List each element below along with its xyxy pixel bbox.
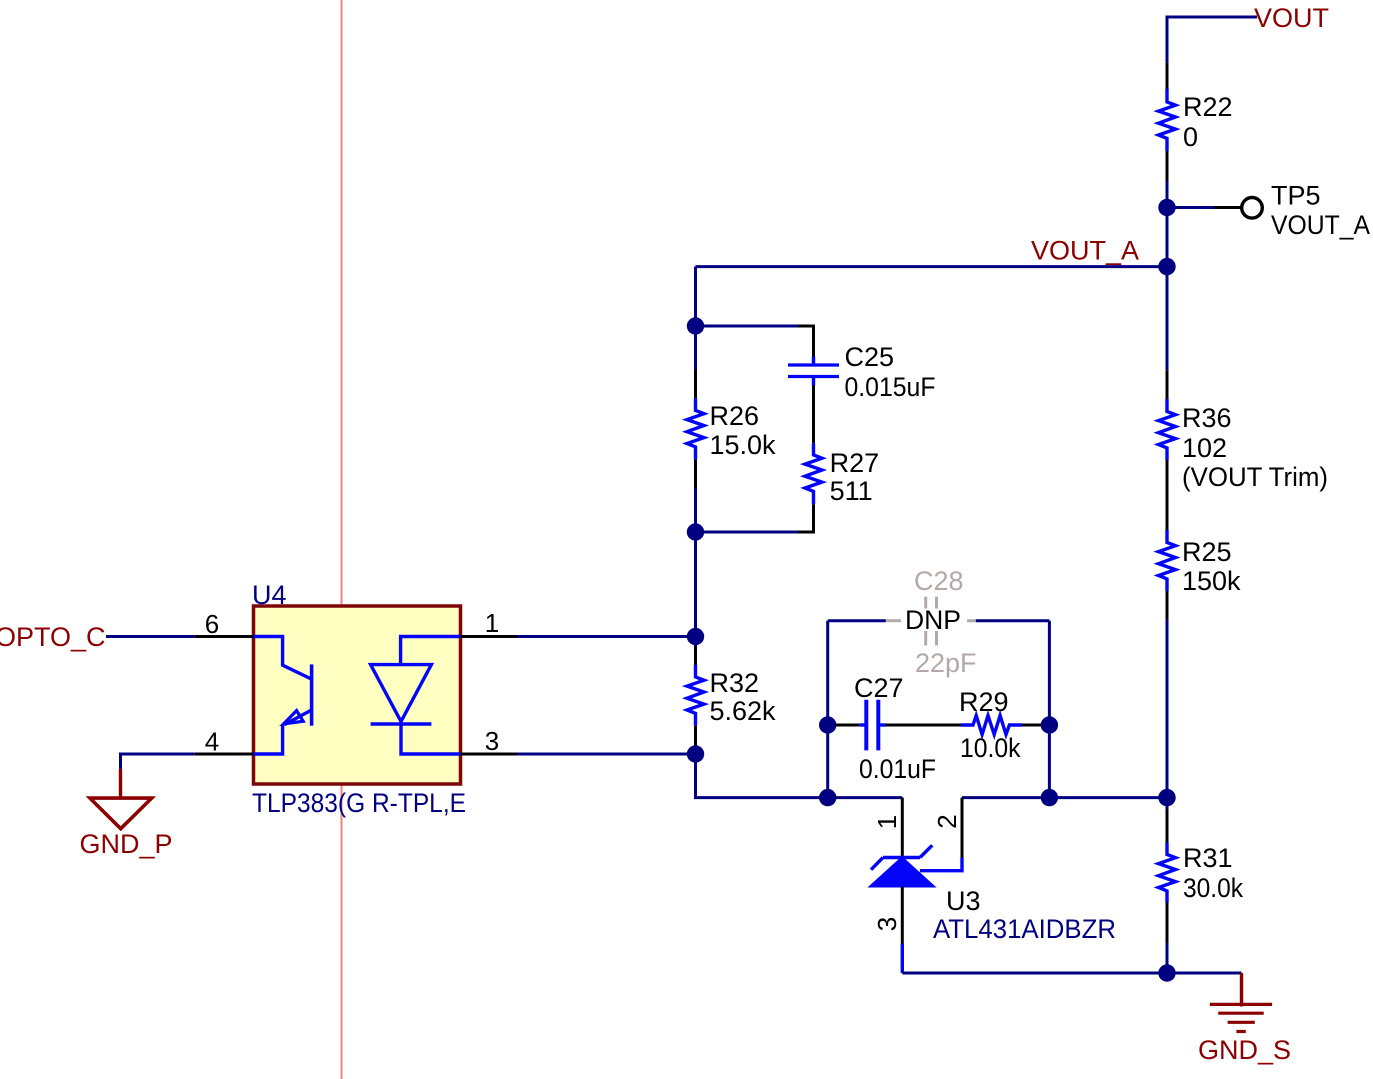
svg-text:(VOUT Trim): (VOUT Trim) [1182,462,1328,492]
svg-text:ATL431AIDBZR: ATL431AIDBZR [933,914,1116,944]
test point TP5 [1242,198,1263,219]
svg-text:1: 1 [872,815,902,829]
ground GND_P [90,769,152,829]
svg-text:0: 0 [1183,122,1198,152]
svg-text:C27: C27 [854,673,904,703]
wire to GND_S [1167,972,1242,975]
svg-text:R32: R32 [710,668,760,698]
svg-text:VOUT_A: VOUT_A [1031,236,1139,266]
off-page partition line [341,0,343,1079]
svg-text:TP5: TP5 [1271,181,1321,211]
wire down to opto pin1 junction [694,532,697,637]
svg-text:GND_S: GND_S [1198,1035,1291,1065]
svg-text:22pF: 22pF [915,648,977,678]
wire pin 4 to GND_P [121,754,254,769]
wire left loop vertical [826,621,829,798]
resistor R29 [961,716,1049,735]
svg-text:511: 511 [830,476,873,506]
shunt regulator U3 pin 1 wire [901,798,904,858]
resistor R26 [687,326,704,532]
wire R22 to junction [1166,181,1169,208]
U3 pin 2 wire [920,798,962,871]
svg-text:102: 102 [1182,433,1227,463]
svg-text:R27: R27 [830,448,880,478]
svg-text:0.015uF: 0.015uF [845,372,936,402]
junction at R22/TP5 [1158,199,1175,216]
wire to TP5 [1167,206,1242,209]
wire junction to VOUT_A junction [1166,208,1169,267]
svg-text:R31: R31 [1183,843,1233,873]
junction R29 right [1041,716,1058,733]
wire VOUT_A rail [696,265,1168,268]
ground GND_S [1210,973,1272,1032]
svg-text:3: 3 [485,726,499,756]
junction C27 left bottom [819,789,836,806]
optocoupler U4 body [254,606,461,784]
svg-text:VOUT_A: VOUT_A [1271,210,1370,240]
junction C27 left [819,716,836,733]
svg-text:3: 3 [872,917,902,931]
resistor R25 [1159,530,1176,798]
wire left column down [694,267,697,326]
svg-text:30.0k: 30.0k [1183,873,1243,903]
wire U3 anode rail [902,972,1167,975]
U4 LED diode [371,637,461,755]
resistor R32 [687,637,704,755]
svg-text:150k: 150k [1182,566,1241,596]
svg-text:1: 1 [485,608,499,638]
svg-text:R25: R25 [1182,537,1232,567]
capacitor C28 (DNP, gray) [886,597,976,646]
svg-text:15.0k: 15.0k [710,430,777,460]
junction opto pin3 [687,745,704,762]
junction ground node [1158,964,1175,981]
svg-text:U4: U4 [252,580,287,610]
wire R26/R27 bottom rail [696,531,799,534]
svg-text:VOUT: VOUT [1254,3,1329,33]
wire C27 to R29 [886,724,962,727]
resistor R22 [1159,63,1176,181]
wire R27 bottom [798,504,814,532]
capacitor C27 [836,700,886,751]
wire C28 top rail [828,619,1050,622]
junction bottom right loop [1041,789,1058,806]
svg-text:2: 2 [932,814,962,828]
svg-text:GND_P: GND_P [80,829,173,859]
svg-text:TLP383(G R-TPL,E: TLP383(G R-TPL,E [252,788,466,818]
capacitor C25 [788,357,839,386]
svg-text:4: 4 [205,727,219,757]
svg-text:U3: U3 [946,886,981,916]
wire bottom rail left of U3 [828,796,903,799]
svg-text:R26: R26 [710,401,760,431]
junction VOUT_A [1158,258,1175,275]
svg-text:DNP: DNP [905,605,961,635]
junction R26 bottom [687,523,704,540]
svg-text:5.62k: 5.62k [710,696,777,726]
shunt regulator U3 body [870,845,934,886]
svg-text:R36: R36 [1182,403,1232,433]
junction R26 top [687,317,704,334]
wire VOUT top [1167,17,1257,63]
wire down to bottom rail [696,754,828,798]
resistor R27 [805,443,822,504]
svg-text:R22: R22 [1183,92,1233,122]
C28 DNP label [901,605,967,635]
wire pin 3 to junction [461,753,696,756]
junction opto pin1 [687,628,704,645]
wire bottom rail right of U3 [962,796,1049,799]
svg-text:C25: C25 [845,342,895,372]
svg-text:0.01uF: 0.01uF [859,754,936,784]
wire loop bottom to divider [1049,796,1167,799]
svg-text:10.0k: 10.0k [960,733,1021,763]
U3 pin 3 wire [901,887,904,974]
resistor R31 [1159,798,1176,973]
svg-text:R29: R29 [959,687,1009,717]
svg-text:C28: C28 [914,566,964,596]
wire pin 1 to junction [461,635,696,638]
wire C25 to R27 [812,386,815,444]
resistor R36 [1159,267,1176,530]
wire OPTO_C to pin 6 [106,635,254,638]
U4 phototransistor [253,637,312,755]
svg-text:OPTO_C: OPTO_C [0,622,106,652]
wire to C25 branch [696,326,814,357]
junction divider/loop [1158,789,1175,806]
wire right loop vertical [1048,621,1051,798]
svg-text:6: 6 [205,609,219,639]
